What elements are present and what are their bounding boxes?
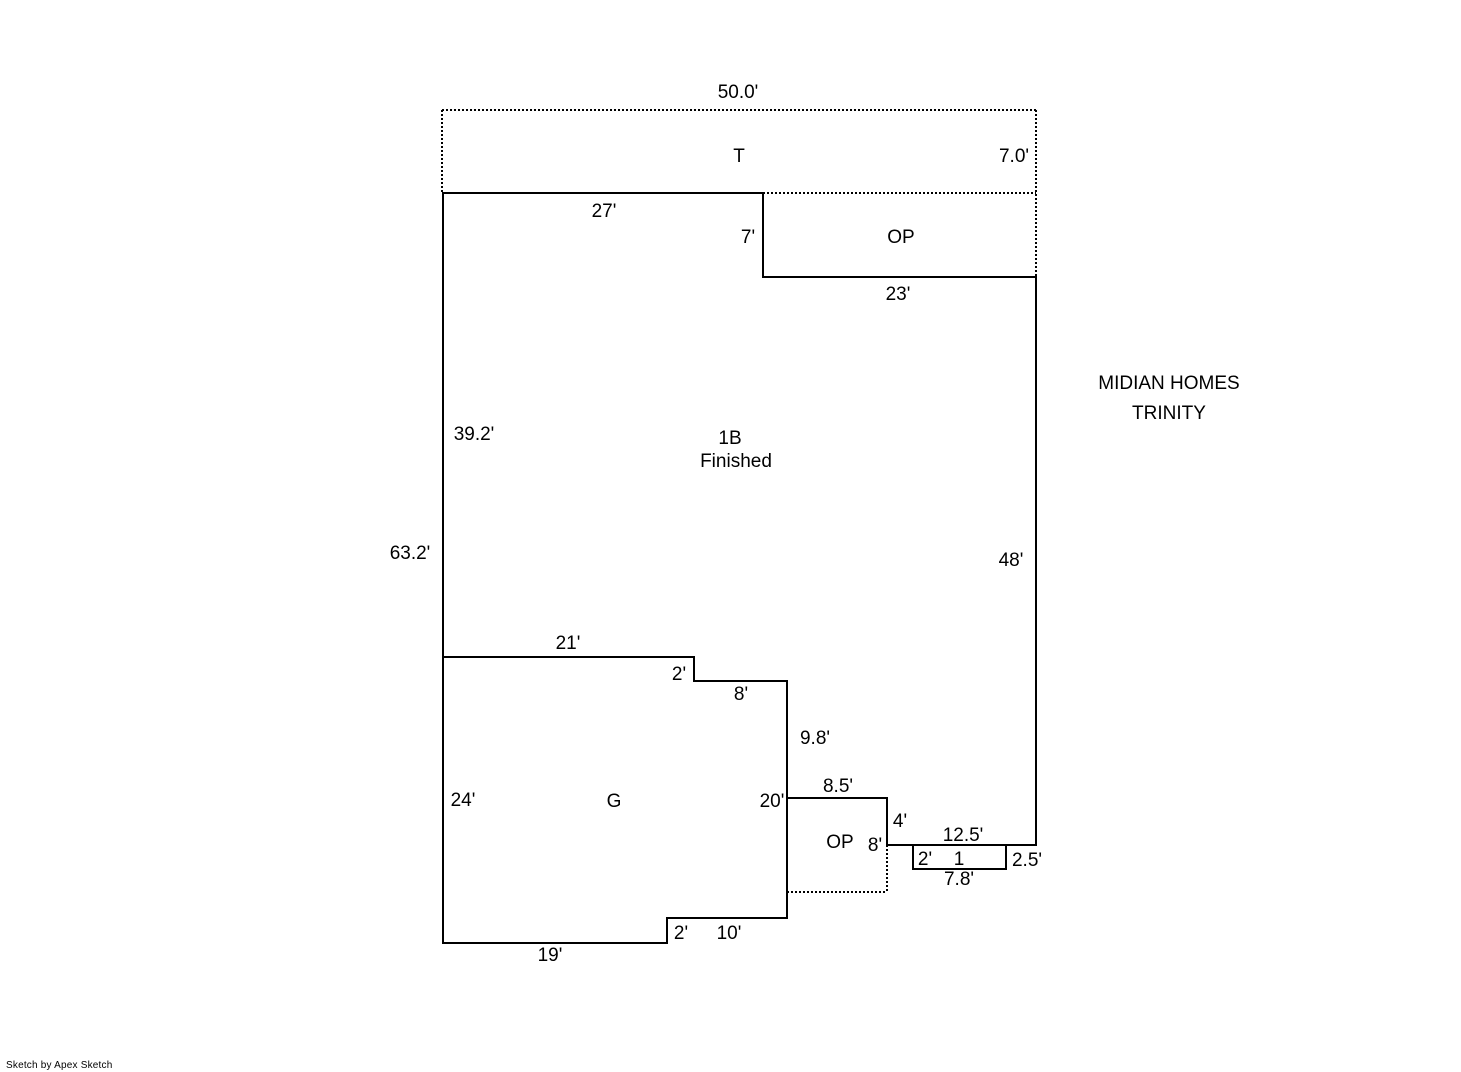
svg-text:8.5': 8.5' [823, 776, 853, 797]
svg-text:2.5': 2.5' [1012, 850, 1042, 871]
svg-text:G: G [607, 791, 622, 812]
svg-text:23': 23' [886, 284, 911, 305]
svg-text:27': 27' [592, 201, 617, 222]
svg-text:Sketch by Apex Sketch: Sketch by Apex Sketch [6, 1060, 112, 1071]
svg-text:63.2': 63.2' [390, 543, 431, 564]
wall outline G garage area [443, 657, 787, 943]
dashed line T top [442, 109, 1036, 111]
svg-text:2': 2' [674, 923, 688, 944]
svg-text:OP: OP [826, 832, 853, 853]
dashed line lower OP bottom [787, 891, 887, 893]
svg-text:50.0': 50.0' [718, 82, 759, 103]
svg-text:21': 21' [556, 633, 581, 654]
dashed line T left [441, 110, 443, 193]
svg-text:1B: 1B [718, 428, 741, 449]
svg-text:8': 8' [868, 835, 882, 856]
wall outline stoop area 1 [913, 845, 1006, 869]
svg-text:2': 2' [672, 664, 686, 685]
svg-text:TRINITY: TRINITY [1132, 403, 1206, 424]
svg-text:12.5': 12.5' [943, 825, 984, 846]
dashed line T bottom / OP top [763, 192, 1036, 194]
svg-text:7.0': 7.0' [999, 146, 1029, 167]
svg-text:T: T [733, 146, 745, 167]
svg-text:7': 7' [741, 227, 755, 248]
svg-text:48': 48' [999, 550, 1024, 571]
svg-text:24': 24' [451, 790, 476, 811]
wall outline 1B finished area [443, 193, 1036, 845]
svg-text:MIDIAN HOMES: MIDIAN HOMES [1098, 373, 1239, 394]
dashed line lower OP right [886, 845, 888, 892]
svg-text:10': 10' [717, 923, 742, 944]
svg-text:20': 20' [760, 791, 785, 812]
svg-text:4': 4' [893, 811, 907, 832]
svg-text:Finished: Finished [700, 451, 772, 472]
svg-text:7.8': 7.8' [944, 869, 974, 890]
dashed line T and OP right [1035, 110, 1037, 277]
svg-text:1: 1 [954, 849, 965, 870]
svg-text:19': 19' [538, 945, 563, 966]
svg-text:8': 8' [734, 684, 748, 705]
svg-text:OP: OP [887, 227, 914, 248]
svg-text:39.2': 39.2' [454, 424, 495, 445]
svg-text:2': 2' [918, 849, 932, 870]
svg-text:9.8': 9.8' [800, 728, 830, 749]
